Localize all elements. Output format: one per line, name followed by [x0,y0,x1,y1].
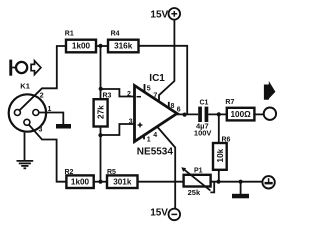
svg-text:IC1: IC1 [149,73,165,84]
svg-text:K1: K1 [20,82,30,91]
svg-text:4: 4 [153,132,157,139]
svg-text:8: 8 [171,103,175,110]
svg-text:C1: C1 [200,100,209,107]
svg-text:15V: 15V [150,10,168,21]
svg-text:100Ω: 100Ω [230,110,251,119]
svg-text:3: 3 [39,127,43,134]
svg-text:2: 2 [40,92,44,99]
svg-text:R2: R2 [65,169,74,176]
svg-text:NE5534: NE5534 [137,146,174,157]
svg-text:301k: 301k [113,178,132,187]
svg-text:R1: R1 [65,31,74,38]
svg-text:100V: 100V [194,129,212,138]
svg-text:25k: 25k [188,188,201,197]
svg-text:7: 7 [153,93,157,100]
svg-text:1k00: 1k00 [72,42,91,51]
svg-text:R7: R7 [225,99,234,106]
svg-text:5: 5 [147,85,151,92]
svg-text:P1: P1 [194,168,203,175]
svg-text:10k: 10k [216,148,225,162]
svg-text:3: 3 [129,118,133,125]
svg-text:R4: R4 [111,30,120,37]
svg-text:2: 2 [127,91,131,98]
svg-text:R6: R6 [222,137,231,144]
svg-text:R5: R5 [107,169,116,176]
svg-text:1k00: 1k00 [71,178,90,187]
svg-text:15V: 15V [150,208,168,219]
svg-text:R3: R3 [103,93,112,100]
svg-text:1: 1 [147,137,151,144]
svg-text:316k: 316k [114,42,133,51]
svg-text:27k: 27k [96,105,105,119]
svg-text:6: 6 [177,107,181,114]
svg-text:1: 1 [48,106,52,113]
